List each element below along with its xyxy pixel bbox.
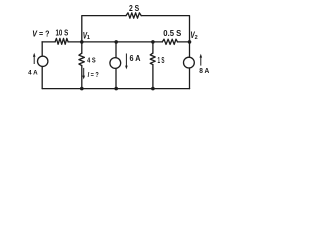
wire 8A branch upper xyxy=(189,42,191,57)
svg-text:1 S: 1 S xyxy=(158,56,165,65)
wire 8A branch lower xyxy=(189,68,191,89)
svg-text:4 S: 4 S xyxy=(87,56,96,65)
resistor 10 S zigzag xyxy=(55,38,68,44)
resistor 0.5 S zigzag xyxy=(162,39,177,44)
wire middle rail to V2 xyxy=(178,41,190,43)
wire left branch upper xyxy=(41,42,43,56)
wire 1S branch lower xyxy=(152,65,154,89)
wire middle rail V1 to 0.5S xyxy=(68,41,162,43)
junction dot 6A bottom xyxy=(114,87,118,91)
node V1 junction dot xyxy=(80,40,84,44)
current source 4A circle xyxy=(38,56,48,66)
wire top rail right segment xyxy=(141,16,189,42)
resistor 2 S zigzag xyxy=(126,13,141,18)
wire top rail left segment xyxy=(82,16,126,42)
wire 1S branch upper xyxy=(152,42,154,53)
junction dot V1 bottom xyxy=(80,87,84,91)
svg-text:I = ?: I = ? xyxy=(88,70,99,79)
resistor 1 S zigzag xyxy=(150,53,155,65)
current source 6A circle xyxy=(110,58,121,69)
junction dot 6A top xyxy=(114,40,118,44)
svg-text:8 A: 8 A xyxy=(199,66,210,75)
wire 6A branch upper xyxy=(115,42,117,58)
wire V1 branch upper xyxy=(81,42,83,53)
arrow current I (down) xyxy=(83,68,85,76)
junction dot 1S top xyxy=(151,40,155,44)
svg-text:1: 1 xyxy=(87,35,90,41)
svg-text:6 A: 6 A xyxy=(130,54,141,63)
svg-text:0.5 S: 0.5 S xyxy=(163,29,182,38)
resistor 4 S zigzag xyxy=(79,53,85,65)
svg-text:10 S: 10 S xyxy=(56,28,69,37)
svg-text:4 A: 4 A xyxy=(28,69,38,76)
arrow 6A source (down) xyxy=(125,54,127,67)
wire left branch lower xyxy=(41,66,43,88)
svg-text:2 S: 2 S xyxy=(129,4,140,13)
junction dot 1S bottom xyxy=(151,87,155,91)
wire middle rail far-left xyxy=(42,41,55,43)
node V2 junction dot xyxy=(188,40,192,44)
arrow 8A source (up) xyxy=(200,57,202,66)
wire 6A branch lower xyxy=(115,68,117,88)
wire V1 branch lower xyxy=(81,66,83,89)
svg-text:V = ?: V = ? xyxy=(32,29,49,38)
current source 8A circle xyxy=(184,57,195,68)
svg-text:2: 2 xyxy=(195,35,198,41)
wire bottom rail xyxy=(42,88,189,90)
arrow 4A source (up) xyxy=(33,56,35,64)
